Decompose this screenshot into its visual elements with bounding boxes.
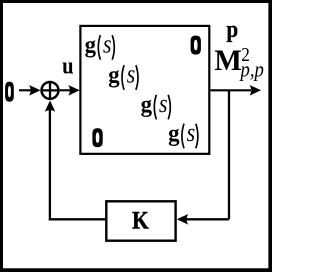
wire gain block K to summing junction xyxy=(49,218,106,220)
matrix entry g(s) row 3 xyxy=(141,90,171,119)
svg-text:M: M xyxy=(214,45,241,77)
matrix entry g(s) row 2 xyxy=(108,61,138,90)
wire summing junction to plant xyxy=(60,89,70,91)
matrix entry g(s) row 1 xyxy=(85,31,115,60)
svg-text:u: u xyxy=(62,52,74,79)
wire input to summing junction xyxy=(19,89,32,91)
wire feedback tap down xyxy=(228,90,230,219)
matrix zero bottom-left xyxy=(92,128,102,147)
gain block K xyxy=(106,201,175,240)
svg-text:p,p: p,p xyxy=(239,58,264,82)
matrix zero top-right xyxy=(191,36,201,55)
svg-text:K: K xyxy=(132,207,149,235)
wire feedback to gain block K xyxy=(186,218,229,220)
wire plant output xyxy=(211,89,252,91)
svg-text:p: p xyxy=(226,16,238,42)
matrix entry g(s) row 4 xyxy=(168,119,198,148)
summing junction xyxy=(42,82,59,99)
input node 0 xyxy=(5,82,14,102)
plant block: diagonal transfer matrix xyxy=(80,26,209,154)
